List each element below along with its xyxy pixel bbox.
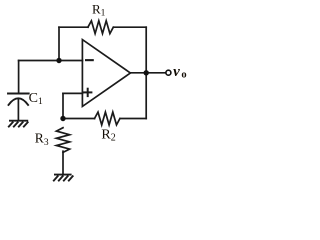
capacitor C1 curved plate xyxy=(9,98,29,105)
wire top rail left of R1 xyxy=(59,26,88,28)
node C output junction xyxy=(144,70,149,75)
wire plus node vertical xyxy=(62,93,64,118)
node B plus-input junction xyxy=(60,116,65,121)
resistor R3 xyxy=(56,128,69,153)
resistor R1 xyxy=(88,21,113,34)
node A minus-input junction xyxy=(56,58,61,63)
wire right vertical R1 to output node xyxy=(145,27,147,73)
op-amp plus sign xyxy=(83,88,92,97)
capacitor C1 top plate xyxy=(8,93,29,95)
svg-text:R1: R1 xyxy=(92,2,106,19)
wire R3 bottom lead xyxy=(62,151,64,174)
wire C1 bottom lead xyxy=(17,99,19,120)
wire minus node up xyxy=(58,27,60,60)
wire left vertical to C1 xyxy=(18,61,20,93)
wire right vertical output node to R2 rail xyxy=(145,73,147,119)
wire op-amp output to terminal xyxy=(130,72,165,74)
svg-text:R2: R2 xyxy=(101,128,115,144)
op-amp U1 triangle xyxy=(82,40,130,107)
op-amp minus sign xyxy=(85,59,94,61)
svg-text:o: o xyxy=(181,70,186,81)
svg-text:C1: C1 xyxy=(29,91,43,107)
ground below R3 xyxy=(53,175,73,182)
resistor R2 xyxy=(95,112,120,125)
wire top rail right of R1 xyxy=(114,26,146,28)
wire plus node to R2 xyxy=(63,118,95,120)
wire minus-input rail xyxy=(19,60,83,62)
wire R2 to right vertical xyxy=(120,118,146,120)
wire plus-input rail xyxy=(63,92,82,94)
svg-text:R3: R3 xyxy=(35,130,49,148)
ground below C1 xyxy=(8,121,28,128)
svg-text:v: v xyxy=(173,64,180,80)
output terminal open circle xyxy=(166,70,171,75)
